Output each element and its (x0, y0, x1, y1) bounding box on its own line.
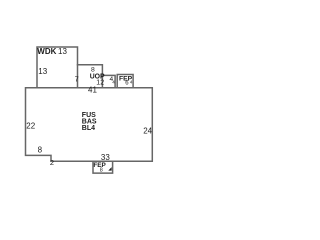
house main outline (FUS/BAS/BL4) (26, 88, 153, 162)
svg-text:8: 8 (100, 167, 103, 173)
svg-text:22: 22 (26, 122, 35, 131)
UOP box walls (78, 65, 103, 88)
4ft porch box walls (102, 75, 115, 87)
svg-text:2: 2 (50, 158, 54, 167)
svg-text:13: 13 (58, 47, 67, 56)
svg-text:13: 13 (38, 67, 47, 76)
FEP bottom box walls (93, 161, 113, 173)
svg-text:7: 7 (75, 74, 79, 83)
corner triangle mark FEP bottom (108, 167, 111, 171)
svg-text:33: 33 (101, 153, 110, 162)
svg-text:8: 8 (38, 145, 43, 154)
WDK box walls (37, 47, 78, 88)
svg-text:12: 12 (96, 80, 104, 87)
svg-text:41: 41 (88, 86, 97, 95)
svg-text:WDK: WDK (37, 47, 56, 56)
FEP top box walls (117, 75, 133, 88)
svg-text:BL4: BL4 (82, 125, 95, 132)
svg-text:24: 24 (143, 126, 152, 135)
